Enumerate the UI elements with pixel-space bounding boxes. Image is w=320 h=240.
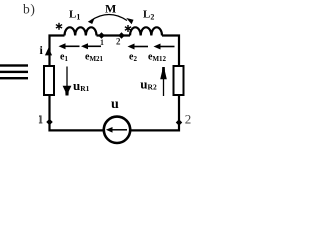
wire right-lower [131, 95, 179, 130]
wire top-left [50, 36, 65, 67]
emf arrow eM12 [160, 46, 175, 48]
polarity asterisk L2 [125, 25, 131, 32]
resistor R1 [44, 66, 54, 95]
polarity asterisk L1 [56, 23, 62, 30]
resistor R2 [174, 66, 184, 95]
node 1 junction dot [98, 32, 105, 39]
inductor L2 [130, 27, 162, 35]
inductor L1 [65, 27, 97, 35]
terminal 1 label [39, 115, 43, 123]
svg-text:M: M [105, 2, 116, 16]
source u circle [104, 117, 130, 143]
svg-text:2: 2 [116, 36, 121, 46]
wire between coils [97, 34, 131, 36]
current i arrowhead [45, 48, 52, 56]
emf arrow e1 [64, 45, 80, 47]
emf arrow eM21 [87, 45, 102, 47]
emf arrow e2 [133, 46, 148, 48]
terminal 1 dot [46, 119, 53, 126]
wire top-right [162, 36, 179, 67]
terminal 2 dot [176, 119, 183, 126]
equals bars (cropped equation fragment) [0, 64, 28, 79]
voltage arrow uR2 [163, 78, 165, 96]
source arrow [112, 129, 127, 131]
wire left-lower [50, 95, 104, 130]
mutual inductance arrow M [91, 15, 127, 21]
svg-text:b): b) [23, 2, 35, 17]
svg-text:u: u [111, 97, 119, 112]
node 2 junction dot [118, 32, 125, 39]
svg-text:2: 2 [185, 111, 192, 126]
voltage arrow uR1 [66, 67, 68, 87]
